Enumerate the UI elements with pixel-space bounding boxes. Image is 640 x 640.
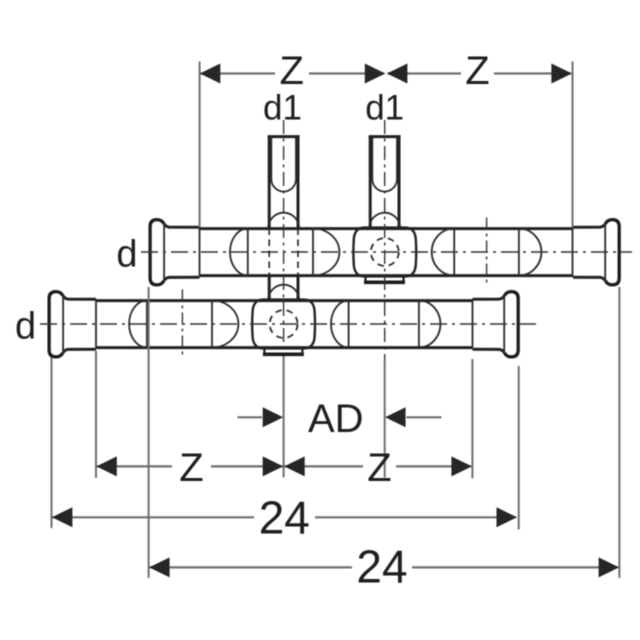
svg-text:Z: Z <box>279 49 303 93</box>
lower pipe left lip inner edge <box>62 296 64 353</box>
upper pipe branch junction blob <box>353 228 416 277</box>
lower pipe bead arc chord 2 <box>211 301 213 348</box>
dim Z top-right arrow right <box>551 64 572 84</box>
lower pipe bead arc bulge right 4 <box>419 301 441 348</box>
branch2 vertical centerline <box>384 120 386 360</box>
branch1 top cap <box>268 135 300 138</box>
lower pipe branch junction blob <box>252 300 315 349</box>
lower pipe right lip inner edge <box>503 296 505 353</box>
branch1 hidden wall dashed left <box>268 229 270 276</box>
dim Z lower-left line <box>97 465 283 467</box>
dim 24 first: right extension line <box>518 366 520 530</box>
branch2 top cap <box>369 135 401 138</box>
dim AD: right arrow line <box>407 416 442 418</box>
dim Z top: right extension line <box>572 62 574 228</box>
branch1 bulge arc on lower pipe <box>268 285 299 301</box>
upper pipe bead arc bulge right 4 <box>519 229 542 276</box>
branch1 centerline extension below <box>283 358 285 478</box>
lower pipe left press lip <box>49 292 63 357</box>
branch2 socket bead arc <box>372 179 397 192</box>
dim Z top: left extension line <box>199 62 201 228</box>
branch2 inner socket line right <box>396 137 398 179</box>
lower pipe bead arc chord left <box>146 301 148 348</box>
dim AD: left arrow <box>263 407 284 427</box>
lower pipe right press lip <box>504 292 518 357</box>
svg-text:Z: Z <box>465 49 489 93</box>
upper pipe branch bore dashed circle <box>371 238 399 266</box>
dim Z top-left arrow right <box>365 64 386 84</box>
lower pipe horizontal centerline <box>40 323 536 325</box>
upper pipe outlet tab below blob <box>366 276 404 281</box>
dim 24 second: left extension line <box>148 287 150 578</box>
dim Z top-right line <box>388 72 572 74</box>
upper pipe left socket depth line <box>199 229 201 276</box>
branch2 inner socket line left <box>371 137 373 179</box>
upper pipe right press lip <box>605 220 619 285</box>
lower pipe branch bore dashed circle <box>270 310 298 338</box>
svg-text:AD: AD <box>308 397 364 441</box>
svg-text:d1: d1 <box>365 89 404 128</box>
dim 24 second: right extension line <box>618 287 620 578</box>
dim 24 second arrow left <box>149 557 170 577</box>
dim Z top-right arrow left <box>387 64 408 84</box>
upper pipe bead arc bulge right 2 <box>313 229 339 276</box>
svg-text:d: d <box>116 233 137 275</box>
dim Z lower-left arrow left <box>96 456 117 476</box>
upper pipe bead arc chord left <box>247 229 249 276</box>
branch1 bulge arc on upper pipe <box>268 213 299 229</box>
svg-text:Z: Z <box>367 446 391 490</box>
dim Z lower-right line <box>285 465 472 467</box>
dim 24 first: left extension line <box>51 358 53 529</box>
dim 24 first arrow right <box>497 507 518 527</box>
svg-text:d: d <box>15 305 36 347</box>
branch1 left wall between pipes <box>268 276 271 300</box>
branch2 centerline extension below <box>384 360 386 478</box>
lower pipe bead arc chord 3 <box>348 301 350 348</box>
branch1 inner socket line left <box>270 137 272 179</box>
upper pipe bead arc chord 2 <box>312 229 314 276</box>
lower pipe bead arc bulge left 3 <box>331 301 349 348</box>
upper pipe bead arc bulge left 3 <box>432 229 454 276</box>
dim 24 first arrow left <box>52 507 73 527</box>
dim Z top-left arrow left <box>200 64 221 84</box>
dim Z lower-right arrow right <box>451 456 472 476</box>
upper pipe body outline <box>164 224 605 281</box>
lower pipe bead centerline mark <box>181 290 183 359</box>
upper pipe bead centerline mark <box>486 218 488 287</box>
branch1 right wall between pipes <box>297 276 300 300</box>
dim AD: left arrow line <box>238 416 263 418</box>
upper pipe bead arc bulge left <box>230 229 248 276</box>
branch2 right wall <box>398 137 401 228</box>
lower pipe right socket depth line <box>472 301 474 348</box>
svg-text:24: 24 <box>259 491 310 543</box>
upper pipe bead arc chord 4 <box>518 229 520 276</box>
upper pipe right lip inner edge <box>604 224 606 281</box>
dim Z lower-left: left extension line <box>95 351 97 478</box>
branch2 left wall <box>369 137 372 228</box>
branch1 inner socket line right <box>295 137 297 179</box>
dim Z lower-left arrow right <box>263 456 284 476</box>
lower pipe outlet tab below blob <box>264 348 302 353</box>
lower pipe left socket depth line <box>95 301 97 348</box>
svg-text:24: 24 <box>356 541 407 593</box>
upper pipe bead arc chord 3 <box>453 229 455 276</box>
dim 24 second arrow right <box>599 557 620 577</box>
dim AD: right arrow <box>385 407 406 427</box>
upper pipe right socket depth line <box>572 229 574 276</box>
svg-text:Z: Z <box>179 446 203 490</box>
lower pipe bead arc bulge left <box>129 301 147 348</box>
branch1 socket bead arc <box>271 179 296 192</box>
dim 24 second line <box>149 566 618 568</box>
branch1 hidden wall dashed right <box>297 229 299 276</box>
upper pipe left press lip <box>150 220 164 285</box>
lower pipe bead arc bulge right 2 <box>212 301 238 348</box>
svg-text:d1: d1 <box>263 89 302 128</box>
dim Z top-left line <box>201 72 385 74</box>
upper pipe horizontal centerline <box>141 251 632 253</box>
dim Z lower: right extension line <box>471 359 473 478</box>
branch1 vertical centerline <box>283 120 285 358</box>
lower pipe body outline <box>63 296 504 353</box>
branch2 junction bulge arc <box>369 213 400 229</box>
dim 24 first line <box>52 516 515 518</box>
branch1 left wall upper part <box>268 137 271 228</box>
lower pipe bead arc chord 4 <box>418 301 420 348</box>
branch1 right wall upper part <box>297 137 300 228</box>
upper pipe left lip inner edge <box>163 224 165 281</box>
dim Z lower-right arrow left <box>284 456 305 476</box>
